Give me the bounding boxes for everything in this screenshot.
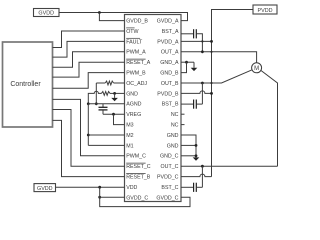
- svg-text:GVDD: GVDD: [37, 186, 53, 192]
- node bootstrap A junction: [201, 50, 204, 53]
- wire controller to RESET_C: [53, 110, 125, 167]
- capacitor C_BST_A: [193, 29, 195, 38]
- svg-text:GVDD_A: GVDD_A: [157, 19, 179, 25]
- svg-text:OC_ADJ: OC_ADJ: [126, 81, 147, 87]
- node AGND row junction: [95, 102, 98, 105]
- capacitor C_VREG: [102, 104, 104, 107]
- svg-text:GND: GND: [167, 143, 179, 149]
- wire BST_A: [181, 33, 193, 35]
- svg-text:RESET_B: RESET_B: [126, 175, 151, 181]
- svg-text:GVDD_C: GVDD_C: [126, 195, 148, 201]
- wire GND right second: [181, 144, 196, 146]
- svg-text:GND_C: GND_C: [160, 154, 179, 160]
- wire OC_ADJ to pin: [114, 82, 125, 84]
- IC U1 (motor driver) box: [125, 15, 182, 202]
- resistor R_OC_ADJ: [105, 81, 113, 85]
- wire GND_B tie: [181, 62, 187, 72]
- svg-text:PVDD_B: PVDD_B: [157, 91, 179, 97]
- wire BST_C: [181, 186, 193, 188]
- PVDD supply label: [253, 5, 277, 14]
- wire OUT_A to motor: [181, 52, 257, 63]
- wire OC_ADJ: [96, 82, 105, 84]
- wire bootstrap C: [201, 166, 203, 187]
- svg-text:PWM_A: PWM_A: [126, 50, 146, 56]
- wire GND row left: [88, 91, 101, 104]
- node VDD junction: [98, 186, 101, 189]
- wire controller to FAULT: [53, 41, 125, 57]
- svg-text:OUT_A: OUT_A: [161, 50, 179, 56]
- wire PVDD_C with hop: [181, 174, 212, 176]
- wire GND_C: [181, 155, 196, 157]
- wire BST_B: [181, 103, 193, 105]
- capacitor C_BST_C: [193, 183, 195, 192]
- node GND_C junction: [195, 154, 198, 157]
- wire controller to OTW: [53, 31, 125, 48]
- svg-text:GND_B: GND_B: [160, 71, 179, 77]
- svg-text:GVDD_B: GVDD_B: [126, 19, 148, 25]
- svg-text:PWM_B: PWM_B: [126, 71, 146, 77]
- wire bootstrap B: [201, 83, 203, 104]
- wire OUT_B to motor (diagonal): [181, 70, 252, 83]
- svg-text:M2: M2: [126, 133, 133, 139]
- svg-text:PVDD_C: PVDD_C: [157, 175, 179, 181]
- svg-text:BST_A: BST_A: [162, 29, 179, 35]
- NC stub 2: [181, 124, 185, 126]
- node PVDD_B on rail: [210, 92, 213, 95]
- node bootstrap C junction: [201, 165, 204, 168]
- ground symbol (phase C side): [193, 157, 200, 160]
- svg-text:VDD: VDD: [126, 185, 137, 191]
- wire cap B to bootstrap: [197, 103, 203, 105]
- svg-text:GND: GND: [167, 133, 179, 139]
- wire GVDD_C left pin: [100, 196, 125, 198]
- wire controller to RESET_B: [53, 120, 125, 176]
- svg-text:GND: GND: [126, 91, 138, 97]
- node bootstrap B junction: [201, 82, 204, 85]
- wire OUT_C right riser to motor: [260, 70, 277, 166]
- wire AGND down to M1: [87, 104, 89, 146]
- node VREG/M3 junction: [112, 113, 115, 116]
- wire AGND row: [88, 103, 124, 105]
- node PVDD_A on rail: [210, 40, 213, 43]
- svg-text:M3: M3: [126, 123, 133, 129]
- svg-text:GVDD_C: GVDD_C: [156, 195, 178, 201]
- svg-text:OUT_C: OUT_C: [161, 164, 179, 170]
- wire M1: [88, 144, 124, 146]
- wire controller to RESET_A: [53, 62, 125, 77]
- svg-text:FAULT: FAULT: [126, 39, 143, 45]
- svg-text:PWM_C: PWM_C: [126, 154, 146, 160]
- wire GND row to pin: [110, 92, 125, 94]
- svg-text:GND_A: GND_A: [160, 60, 179, 66]
- svg-text:RESET_C: RESET_C: [126, 164, 151, 170]
- wire GVDD bottom loop to right GVDD_C: [100, 187, 190, 206]
- svg-text:AGND: AGND: [126, 102, 141, 108]
- svg-text:NC: NC: [171, 112, 179, 118]
- svg-text:OUT_B: OUT_B: [161, 81, 179, 87]
- svg-text:BST_C: BST_C: [161, 185, 178, 191]
- svg-text:M: M: [254, 66, 259, 72]
- GVDD supply label (top): [34, 9, 60, 17]
- node GND right junction: [195, 144, 198, 147]
- wire controller to PWM_B: [53, 73, 125, 89]
- svg-text:BST_B: BST_B: [162, 102, 179, 108]
- svg-text:M1: M1: [126, 143, 133, 149]
- node GND arrow junction: [113, 92, 116, 95]
- svg-text:VREG: VREG: [126, 112, 141, 118]
- wire OUT_C: [181, 165, 278, 167]
- wire PVDD rail: [212, 10, 254, 177]
- wire controller to PWM_C: [53, 99, 125, 155]
- wire M3 tie to VREG: [114, 114, 125, 124]
- wire PVDD_B with hop: [181, 91, 212, 94]
- svg-text:Controller: Controller: [10, 81, 41, 88]
- node GND_A/GND_B junction: [185, 61, 188, 64]
- capacitor C_BST_B: [193, 100, 195, 109]
- node GVDD branch junction: [98, 11, 101, 14]
- wire GVDD to VDD: [56, 186, 125, 188]
- svg-text:PVDD_A: PVDD_A: [157, 39, 179, 45]
- node GVDD_C junction: [98, 196, 101, 199]
- svg-text:PVDD: PVDD: [258, 8, 273, 14]
- ground symbol (mid): [114, 93, 116, 98]
- wire bootstrap A to OUT_A: [197, 34, 203, 52]
- svg-text:OTW: OTW: [126, 29, 138, 35]
- svg-text:GVDD: GVDD: [38, 11, 54, 17]
- GVDD supply label (bottom): [34, 184, 56, 192]
- wire GVDD to GVDD_B pin: [99, 13, 124, 21]
- wire M2: [88, 134, 124, 136]
- wire GND right top: [181, 135, 196, 157]
- wire VREG: [103, 113, 125, 115]
- wire PVDD_A: [181, 40, 212, 42]
- NC stub 1: [181, 113, 185, 115]
- ground symbol (phase A): [193, 62, 195, 67]
- wire controller to PWM_A: [53, 52, 125, 67]
- wire OC_ADJ down to AGND: [95, 83, 97, 104]
- wire cap C to bootstrap: [197, 186, 203, 188]
- resistor R_GND: [101, 92, 110, 96]
- node M2 junction: [87, 134, 90, 137]
- motor M (BLDC): [252, 63, 262, 73]
- controller block: [3, 42, 53, 127]
- svg-text:RESET_A: RESET_A: [126, 60, 151, 66]
- wire GVDD rail top to GVDD_A: [59, 13, 188, 21]
- node AGND left junction: [87, 102, 90, 105]
- svg-text:NC: NC: [171, 123, 179, 129]
- wire GND_A: [181, 61, 194, 63]
